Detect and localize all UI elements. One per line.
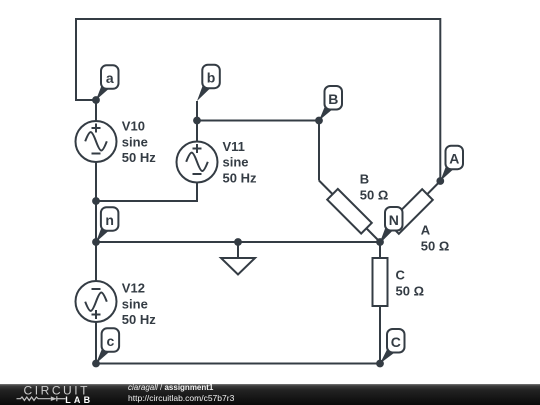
svg-text:sine: sine [122,134,148,149]
junction V10/V11 bottom [92,197,100,205]
node C junction [376,360,384,368]
ground stem [237,242,239,258]
wire node C to resistor C [379,306,381,364]
node label n [96,207,118,242]
wire node a to V10 [95,100,97,122]
node label C [380,329,405,364]
label V11 value [223,139,257,185]
svg-text:C: C [391,334,401,350]
node label A [440,146,463,181]
CircuitLab logo zigzag and diode [17,396,66,401]
resistor B [319,181,380,243]
wire n rail to node N [96,241,380,243]
wire n to V12 [95,242,97,281]
svg-text:50 Hz: 50 Hz [122,312,156,327]
node A junction [436,177,444,185]
resistor C [373,258,388,306]
node B junction [315,117,323,125]
node label N [380,207,403,242]
wire b junction to node B [197,120,319,122]
label V12 value [122,281,156,327]
svg-text:V10: V10 [122,119,145,134]
voltage source V12 [76,281,117,322]
svg-text:c: c [106,333,114,349]
voltage source V10 [76,121,117,162]
svg-text:http://circuitlab.com/c57b7r3: http://circuitlab.com/c57b7r3 [128,393,235,403]
svg-text:sine: sine [223,155,249,170]
svg-text:50 Hz: 50 Hz [223,170,257,185]
svg-text:sine: sine [122,296,148,311]
wire right rail [439,18,441,181]
node c junction [92,360,100,368]
svg-text:n: n [105,212,114,228]
ground symbol [221,258,255,275]
svg-text:LAB: LAB [65,395,93,405]
ground junction [234,238,242,246]
wire V12 to node c [95,322,97,364]
wire top rail [76,18,440,20]
svg-text:A: A [421,223,431,238]
node label c [96,328,119,363]
wire into node a [75,99,96,101]
voltage source V11 [177,142,218,183]
wire resistor C to node N [379,242,381,258]
svg-text:V11: V11 [223,139,245,154]
node label B [319,86,342,121]
wire bottom rail [96,363,380,365]
wire left drop [75,18,77,100]
svg-text:B: B [328,91,338,107]
svg-text:50 Hz: 50 Hz [122,150,156,165]
label B value [360,172,389,203]
node a junction [92,96,100,104]
svg-text:50 Ω: 50 Ω [421,239,450,254]
wire b drop [196,101,198,142]
svg-text:b: b [207,70,216,86]
resistor A [380,181,440,242]
footer bar [0,384,540,405]
svg-text:a: a [106,70,114,86]
svg-text:A: A [449,151,459,167]
svg-text:V12: V12 [122,281,145,296]
svg-text:N: N [389,212,399,228]
svg-text:50 Ω: 50 Ω [360,188,389,203]
node label a [96,65,119,100]
wire V10 to bottom junction [95,161,97,201]
node n junction [92,238,100,246]
svg-text:B: B [360,172,369,187]
wire B drop [318,120,320,181]
svg-text:ciaragall / assignment1: ciaragall / assignment1 [128,383,214,392]
svg-text:C: C [396,267,406,282]
label C value [396,267,425,298]
label V10 value [122,119,156,165]
wire junction to V11 bottom [96,182,197,201]
svg-text:50 Ω: 50 Ω [396,284,425,299]
junction b/B rail [193,117,201,125]
label A value [421,223,450,254]
node label b [197,65,220,101]
node N junction [376,238,384,246]
wire n drop [95,201,97,242]
